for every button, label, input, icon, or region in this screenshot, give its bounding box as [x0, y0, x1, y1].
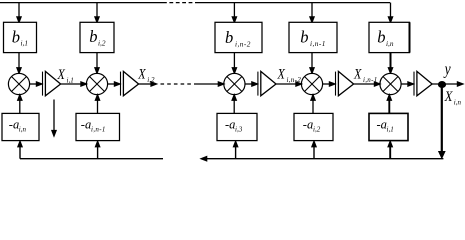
svg-text:i,1: i,1	[67, 77, 74, 85]
svg-text:-a: -a	[81, 117, 91, 131]
svg-text:-a: -a	[225, 118, 235, 132]
svg-text:y: y	[443, 60, 451, 79]
svg-text:i,2: i,2	[313, 126, 321, 134]
svg-text:X: X	[444, 88, 454, 105]
svg-text:-a: -a	[377, 118, 387, 132]
svg-text:-a: -a	[303, 118, 313, 132]
svg-text:b: b	[377, 28, 385, 47]
svg-text:i,3: i,3	[235, 126, 243, 134]
svg-text:i,n-1: i,n-1	[310, 39, 326, 48]
svg-text:b: b	[300, 28, 308, 47]
svg-text:X: X	[277, 66, 286, 82]
svg-text:X: X	[353, 66, 362, 82]
svg-text:i,1: i,1	[21, 38, 29, 47]
svg-text:X: X	[57, 66, 66, 82]
svg-text:i,n-1: i,n-1	[363, 76, 378, 84]
svg-text:i,n: i,n	[19, 126, 27, 134]
svg-text:i,n: i,n	[386, 39, 394, 48]
svg-text:i,2: i,2	[98, 38, 106, 47]
svg-text:i,n: i,n	[454, 99, 462, 107]
svg-text:i,n-2: i,n-2	[235, 39, 251, 48]
svg-text:b: b	[89, 27, 97, 46]
svg-text:b: b	[225, 28, 233, 47]
svg-text:-a: -a	[9, 117, 19, 131]
svg-text:i,n-1: i,n-1	[91, 126, 106, 134]
svg-text:i,n-2: i,n-2	[287, 76, 302, 84]
svg-text:X: X	[137, 66, 146, 82]
svg-text:b: b	[12, 28, 20, 47]
svg-text:i,2: i,2	[147, 76, 155, 84]
svg-text:i,1: i,1	[387, 126, 394, 134]
